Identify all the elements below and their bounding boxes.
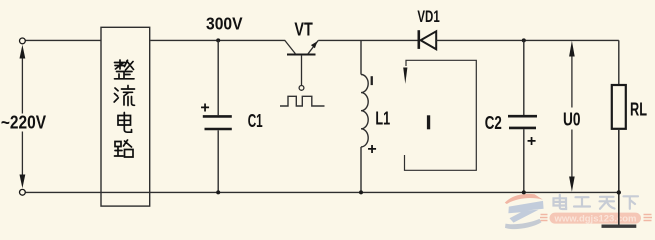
wire: L1 bottom lead <box>360 147 362 193</box>
svg-text:VT: VT <box>294 20 312 40</box>
input terminal bottom circle <box>20 189 26 195</box>
node: RL bottom junction dot <box>617 190 621 194</box>
wire: top bus, transistor to diode <box>318 39 419 41</box>
svg-text:C1: C1 <box>248 110 263 131</box>
node: C2 bottom junction dot <box>522 190 526 194</box>
ground bar <box>602 224 637 227</box>
input terminal top circle <box>20 38 26 44</box>
wire: C1 bottom lead <box>217 130 219 192</box>
capacitor C1 <box>203 116 232 129</box>
svg-text:~220V: ~220V <box>1 112 46 132</box>
svg-text:www.dgjs123.com: www.dgjs123.com <box>553 213 636 223</box>
label I (inductor current) <box>371 76 373 85</box>
wire: RL bottom lead <box>618 129 620 225</box>
wire: top bus, diode to right corner <box>436 39 619 41</box>
rectifier label 整流电路 <box>114 60 134 157</box>
node: L1 bottom junction dot <box>359 190 363 194</box>
svg-text:+: + <box>367 141 376 158</box>
svg-text:300V: 300V <box>206 13 243 33</box>
svg-text:U0: U0 <box>563 109 581 129</box>
U0 dimension arrows <box>571 49 573 183</box>
wire: top bus, rectifier to transistor <box>150 39 285 41</box>
watermark text 电工天下 <box>554 195 639 209</box>
watermark logo (dgjs123 swoosh) <box>505 194 544 229</box>
svg-text:L1: L1 <box>375 108 390 129</box>
label I (loop current) <box>427 115 430 129</box>
wire: C2 top lead <box>523 40 525 115</box>
inductor L1 <box>361 75 368 147</box>
svg-text:C2: C2 <box>485 112 502 133</box>
loop arrow (current direction) <box>403 68 407 84</box>
pulse waveform symbol <box>280 96 325 106</box>
wire: C2 bottom lead <box>523 129 525 192</box>
svg-text:+: + <box>527 133 536 150</box>
wire: bottom bus <box>25 191 619 193</box>
diode VD1 <box>419 30 436 49</box>
wire: right corner down to RL <box>618 40 620 85</box>
resistor RL <box>612 85 626 129</box>
transistor VT <box>285 40 319 90</box>
svg-text:RL: RL <box>630 100 647 120</box>
watermark url band www.dgjs123.com <box>540 213 652 224</box>
svg-text:+: + <box>200 100 209 117</box>
capacitor C2 <box>508 116 537 128</box>
current loop I box <box>405 60 477 170</box>
node: C2 top junction dot <box>522 38 526 42</box>
wire: C1 top lead <box>217 40 219 115</box>
~220V dimension line <box>21 52 23 181</box>
node: C1 bottom junction dot <box>216 190 220 194</box>
node: 300V junction dot <box>216 38 220 42</box>
wire: top bus, terminal to rectifier <box>25 39 102 41</box>
rectifier block box <box>101 27 150 206</box>
svg-text:VD1: VD1 <box>417 7 439 26</box>
wire: L1 top lead <box>360 40 362 74</box>
